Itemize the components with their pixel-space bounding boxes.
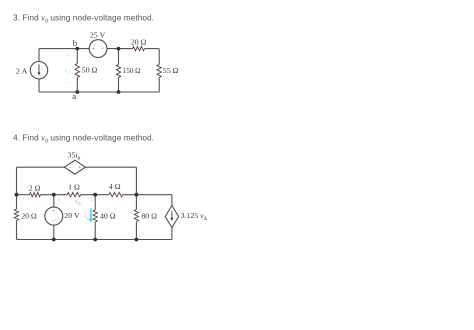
svg-text:+: +: [67, 53, 71, 60]
svg-text:−: −: [69, 165, 72, 171]
svg-text:50 Ω: 50 Ω: [82, 66, 98, 75]
svg-text:4 Ω: 4 Ω: [109, 182, 121, 191]
svg-text:150 Ω: 150 Ω: [123, 66, 141, 75]
svg-text:80 Ω: 80 Ω: [141, 211, 157, 220]
svg-text:20 Ω: 20 Ω: [131, 38, 147, 47]
svg-text:−: −: [90, 198, 93, 204]
svg-text:Δ: Δ: [78, 201, 81, 206]
svg-text:40 Ω: 40 Ω: [100, 211, 116, 220]
svg-text:2 A: 2 A: [16, 67, 28, 76]
svg-text:55 Ω: 55 Ω: [163, 66, 179, 75]
svg-text:+: +: [52, 208, 55, 214]
svg-text:20 Ω: 20 Ω: [21, 211, 37, 220]
svg-text:2 Ω: 2 Ω: [29, 183, 41, 192]
svg-text:35iϕ: 35iϕ: [68, 150, 81, 161]
svg-text:+: +: [78, 165, 81, 171]
svg-text:ϕ: ϕ: [87, 215, 90, 220]
svg-text:+: +: [57, 198, 60, 204]
svg-text:3. Find v0 using node-voltage: 3. Find v0 using node-voltage method.: [13, 13, 154, 25]
svg-text:o: o: [68, 71, 71, 76]
svg-text:4. Find v0 using node-voltage: 4. Find v0 using node-voltage method.: [13, 133, 154, 145]
svg-text:1 Ω: 1 Ω: [68, 182, 80, 191]
svg-text:−: −: [52, 218, 55, 224]
svg-text:b: b: [73, 38, 78, 48]
svg-text:−: −: [101, 47, 104, 53]
svg-text:−: −: [67, 79, 71, 86]
svg-text:3.125 vΔ: 3.125 vΔ: [181, 211, 208, 222]
svg-text:20 V: 20 V: [64, 211, 80, 220]
svg-text:25 V: 25 V: [90, 31, 106, 40]
svg-text:+: +: [92, 47, 95, 53]
